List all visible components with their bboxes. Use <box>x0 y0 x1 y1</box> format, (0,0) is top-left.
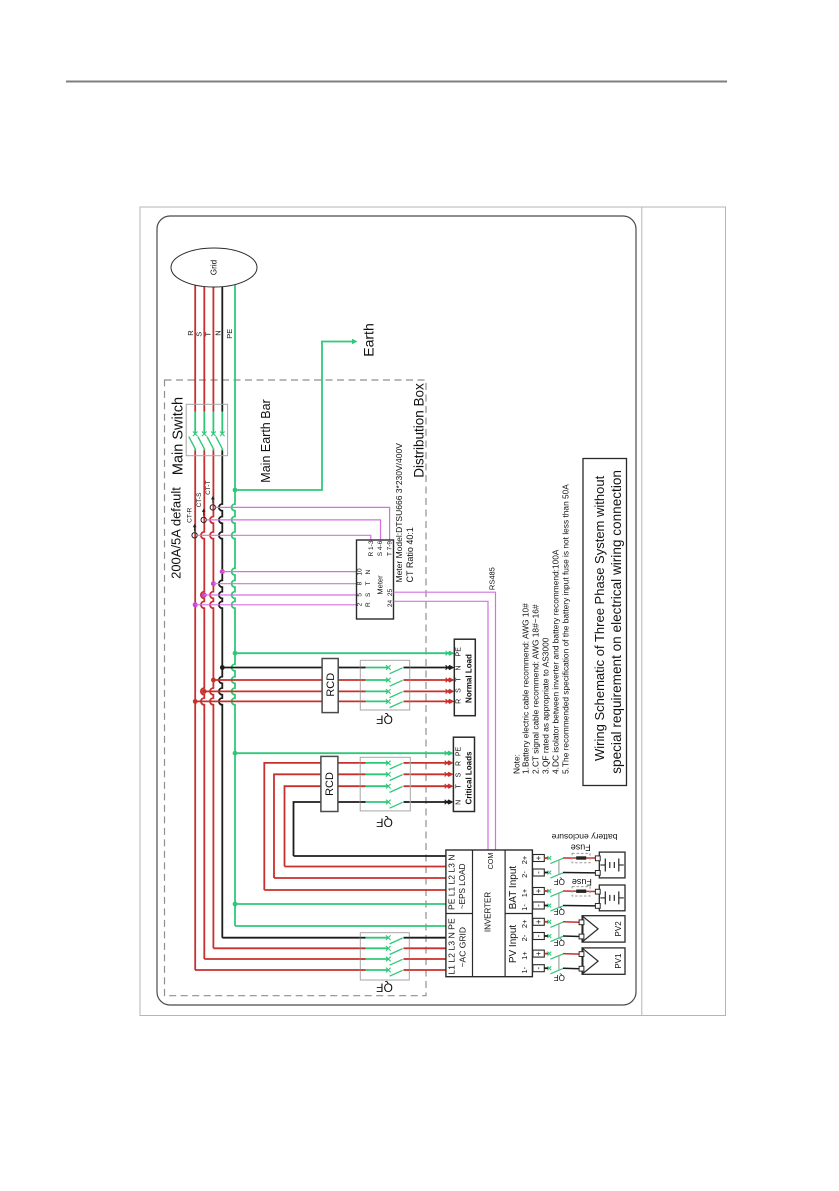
wire PV2 positive <box>563 921 580 924</box>
main switch group box <box>186 404 227 455</box>
normal load terminal box <box>454 639 475 716</box>
QF pole L1 (AC grid) <box>360 968 409 977</box>
svg-text:special requirement on electri: special requirement on electrical wiring… <box>609 470 624 774</box>
svg-text:-: - <box>534 934 543 937</box>
wire CT-R to meter R terminal <box>197 535 371 540</box>
svg-text:QF: QF <box>376 981 393 995</box>
junction normal PE <box>233 651 238 656</box>
svg-text:Normal Load: Normal Load <box>464 654 473 703</box>
svg-text:battery enclosure: battery enclosure <box>551 832 617 842</box>
svg-text:QF: QF <box>376 816 393 830</box>
wire PV1 positive <box>563 953 580 956</box>
title box <box>583 459 627 786</box>
svg-text:CT-S: CT-S <box>196 492 203 507</box>
distribution box dashed boundary <box>165 380 427 996</box>
junction tap pin 8 <box>211 581 216 586</box>
inverter terminal 1+ <box>533 888 544 895</box>
QF pole S (normal) <box>360 689 409 698</box>
inverter terminal 1+ <box>533 950 544 957</box>
svg-text:5: 5 <box>357 593 364 597</box>
svg-text:BAT Input: BAT Input <box>508 866 519 910</box>
svg-text:3.QF rated as appropriate to A: 3.QF rated as appropriate to AS3000 <box>540 637 550 774</box>
svg-text:+: + <box>534 951 543 956</box>
junction tap pin 2 <box>193 602 198 607</box>
svg-text:CT Ratio 40:1: CT Ratio 40:1 <box>405 527 415 582</box>
junction normal T <box>211 678 216 683</box>
svg-text:QF: QF <box>554 907 565 916</box>
wire normal load row PE <box>235 652 446 654</box>
breaker tie bar <box>558 860 560 875</box>
wire battery1 positive <box>563 857 596 859</box>
svg-text:T: T <box>456 784 463 789</box>
svg-text:Wiring Schematic of Three Phas: Wiring Schematic of Three Phase System w… <box>592 475 607 761</box>
svg-text:2-: 2- <box>520 871 529 878</box>
RCD residual current device (normal) <box>322 659 338 713</box>
main switch pole S <box>198 412 207 451</box>
inverter divider EPS/AC <box>446 913 473 915</box>
wire critical loads T riser <box>285 786 446 866</box>
svg-text:Meter: Meter <box>376 575 385 595</box>
QF pole S (critical) <box>360 772 409 781</box>
QF pole R (critical) <box>360 761 409 770</box>
svg-text:Distribution Box: Distribution Box <box>412 383 427 478</box>
svg-text:2-: 2- <box>520 934 529 941</box>
wire PV2 negative <box>563 935 580 938</box>
critical loads terminal box <box>453 737 474 811</box>
breaker blade 2- <box>544 871 563 879</box>
wire critical loads R riser <box>264 763 445 890</box>
svg-text:QF: QF <box>554 877 565 886</box>
svg-text:Critical Loads: Critical Loads <box>464 751 473 804</box>
circuit breaker QF (AC grid) box <box>360 933 409 980</box>
PV panel PV1 <box>582 948 625 974</box>
wire EPS LOAD L2 row <box>274 877 446 879</box>
svg-text:T: T <box>204 331 213 336</box>
wire RS485 pin 25 to inverter COM <box>394 592 496 850</box>
svg-text:2+: 2+ <box>520 919 529 928</box>
svg-text:R 1-3: R 1-3 <box>368 540 375 556</box>
PV terminal <box>579 952 584 957</box>
svg-text:+: + <box>534 919 543 924</box>
breaker tie bar <box>558 924 560 938</box>
battery B2 <box>599 885 625 911</box>
PV panel PV2 <box>582 916 625 942</box>
main switch pole N <box>216 412 225 451</box>
CT clamp CT-T <box>210 496 215 510</box>
battery terminal <box>595 904 600 909</box>
svg-text:Main Earth Bar: Main Earth Bar <box>259 399 273 482</box>
svg-text:8: 8 <box>357 581 364 585</box>
svg-text:Fuse: Fuse <box>571 843 591 853</box>
svg-text:~EPS LOAD: ~EPS LOAD <box>458 863 467 909</box>
svg-text:+: + <box>534 855 543 860</box>
breaker blade 1+ <box>544 889 563 897</box>
junction normal R <box>193 699 198 704</box>
CT clamp CT-R <box>192 524 197 538</box>
fuse (battery) <box>572 887 590 896</box>
inverter terminal 2+ <box>533 918 544 925</box>
svg-text:R: R <box>365 602 372 607</box>
main switch pole R <box>189 412 198 451</box>
svg-text:RCD: RCD <box>324 772 336 796</box>
svg-text:T 7-9: T 7-9 <box>386 541 393 556</box>
inverter divider left column <box>472 850 474 977</box>
svg-text:200A/5A default: 200A/5A default <box>168 487 183 579</box>
svg-text:~AC GRID: ~AC GRID <box>458 927 468 967</box>
svg-text:S: S <box>456 772 463 777</box>
svg-text:S: S <box>456 688 463 693</box>
PV terminal <box>579 934 584 939</box>
grid source ellipse <box>171 248 257 287</box>
circuit breaker QF (normal load) box <box>360 660 409 710</box>
svg-text:24: 24 <box>387 600 394 608</box>
svg-text:1+: 1+ <box>520 888 529 897</box>
wire tap to meter pin 5 <box>204 594 356 596</box>
wire CT-T to meter T terminal <box>215 507 389 540</box>
junction PE to earth bar <box>233 488 238 493</box>
svg-text:2: 2 <box>357 602 364 606</box>
svg-text:1+: 1+ <box>520 951 529 960</box>
inverter divider BAT/PV <box>505 913 532 915</box>
junction critical PE <box>233 751 238 756</box>
RCD residual current device (critical) <box>321 756 338 811</box>
svg-text:1-: 1- <box>520 904 529 911</box>
svg-text:S: S <box>365 592 372 597</box>
svg-text:PV1: PV1 <box>614 953 623 969</box>
wire phase S to AC GRID L2 <box>201 451 204 960</box>
svg-text:PE: PE <box>456 747 463 757</box>
inverter box <box>446 850 533 977</box>
QF pole R (normal) <box>360 699 409 708</box>
svg-text:INVERTER: INVERTER <box>483 892 492 933</box>
inverter terminal 2+ <box>533 855 544 862</box>
inverter terminal 2- <box>533 933 544 940</box>
breaker blade 2+ <box>544 856 563 864</box>
battery terminal <box>595 856 600 861</box>
document top rule <box>66 81 727 83</box>
battery terminal <box>595 889 600 894</box>
wire PV1 negative <box>563 967 580 970</box>
svg-text:2.CT signal cable recommend: A: 2.CT signal cable recommend: AWG 18#~16# <box>531 604 541 774</box>
svg-text:QF: QF <box>554 973 565 982</box>
QF pole N (critical) <box>360 800 409 809</box>
wire PE from grid <box>232 270 235 926</box>
svg-text:Fuse: Fuse <box>572 877 592 887</box>
fuse (battery) <box>572 853 590 862</box>
wire phase R from grid <box>194 270 196 412</box>
svg-text:N: N <box>456 665 463 670</box>
svg-text:N: N <box>214 330 223 335</box>
wire critical loads N riser <box>294 802 446 856</box>
inverter terminal 1- <box>533 965 544 972</box>
QF pole T (critical) <box>360 784 409 793</box>
svg-text:PE: PE <box>225 329 234 339</box>
wire critical loads S riser <box>274 774 446 878</box>
earth arrow <box>352 339 358 345</box>
junction normal S <box>202 689 207 694</box>
wire AC GRID L1 row <box>195 969 360 971</box>
breaker blade 1- <box>544 966 563 974</box>
svg-text:S 4-6: S 4-6 <box>377 540 384 556</box>
wire battery2 negative <box>563 905 596 907</box>
svg-text:RCD: RCD <box>325 673 337 697</box>
wire normal load row S <box>204 690 445 692</box>
battery terminal <box>595 871 600 876</box>
wire EPS LOAD N row <box>294 855 446 857</box>
svg-text:N: N <box>365 569 372 574</box>
svg-text:T: T <box>365 581 372 585</box>
wire EPS LOAD PE row <box>235 903 446 905</box>
wire AC GRID PE row <box>235 925 446 927</box>
PV terminal <box>579 966 584 971</box>
svg-text:-: - <box>534 871 543 874</box>
svg-text:+: + <box>534 888 543 893</box>
svg-text:Meter Model:DTSU666 3*230V/400: Meter Model:DTSU666 3*230V/400V <box>394 443 404 583</box>
svg-text:T: T <box>456 677 463 682</box>
wire normal load row N <box>222 667 445 669</box>
junction tap pin 10 <box>220 569 225 574</box>
sheet divider line <box>641 207 643 1016</box>
breaker blade 1- <box>544 904 563 912</box>
junction EPS PE <box>233 902 238 907</box>
wire EPS LOAD L3 row <box>285 866 446 868</box>
inverter terminal 2- <box>533 869 544 876</box>
inverter divider right column <box>504 850 506 977</box>
svg-text:R: R <box>456 761 463 766</box>
svg-text:Grid: Grid <box>210 259 219 275</box>
wire battery2 positive <box>563 890 596 893</box>
wire EPS LOAD L1 row <box>264 889 446 891</box>
CT clamp CT-S <box>201 508 206 522</box>
breaker blade 2- <box>544 934 563 942</box>
svg-text:QF: QF <box>554 938 565 947</box>
svg-text:-: - <box>534 967 543 970</box>
svg-text:2+: 2+ <box>520 855 529 864</box>
wire neutral N from grid <box>221 270 223 412</box>
svg-text:PV2: PV2 <box>614 921 623 937</box>
wire AC GRID L3 row <box>213 947 360 949</box>
schematic sheet rounded frame <box>157 216 636 1005</box>
svg-text:PE L1 L2 L3 N: PE L1 L2 L3 N <box>447 855 457 910</box>
svg-text:CT-T: CT-T <box>205 480 212 494</box>
QF pole N (normal) <box>360 665 409 674</box>
wire phase T from grid <box>212 270 214 412</box>
wire normal load row T <box>213 679 445 681</box>
main switch pole T <box>207 412 216 451</box>
wire tap to meter pin 2 <box>195 604 356 606</box>
svg-text:5.The recommended specificatio: 5.The recommended specification of the b… <box>560 484 570 774</box>
wire tap to meter pin 10 <box>222 571 356 573</box>
svg-text:N: N <box>456 800 463 805</box>
svg-text:1.Battery electric cable recom: 1.Battery electric cable recommend: AWG … <box>521 603 531 774</box>
svg-text:-: - <box>534 904 543 907</box>
svg-text:Main Switch: Main Switch <box>171 397 187 475</box>
wire to earth <box>235 342 353 491</box>
circuit breaker QF (critical loads) box <box>360 757 410 811</box>
QF pole L2 (AC grid) <box>360 957 409 966</box>
wire RS485 pin 24 to inverter COM <box>394 601 489 850</box>
svg-text:RS485: RS485 <box>487 567 496 590</box>
svg-text:R: R <box>456 699 463 704</box>
wire tap to meter pin 8 <box>213 583 356 585</box>
svg-text:PV Input: PV Input <box>508 925 519 964</box>
breaker blade 1+ <box>544 952 563 960</box>
svg-text:4.DC isolator between inverter: 4.DC isolator between inverter and batte… <box>550 549 560 774</box>
wire neutral N to AC GRID N <box>219 451 222 938</box>
svg-text:S: S <box>195 332 204 337</box>
svg-text:COM: COM <box>486 853 495 870</box>
wire phase T to AC GRID L3 <box>210 451 213 949</box>
svg-text:10: 10 <box>357 568 364 576</box>
svg-text:Earth: Earth <box>361 323 377 356</box>
meter DTSU666 box <box>357 540 394 619</box>
breaker tie bar <box>558 956 560 971</box>
svg-text:QF: QF <box>376 713 393 727</box>
battery B1 <box>599 852 625 878</box>
QF pole T (normal) <box>360 678 409 687</box>
svg-text:L1 L2 L3 N PE: L1 L2 L3 N PE <box>447 918 457 975</box>
image outer border <box>140 207 726 1016</box>
wire AC GRID L2 row <box>204 958 360 960</box>
wire battery1 negative <box>563 872 596 874</box>
svg-text:PE: PE <box>456 647 463 657</box>
QF pole L3 (AC grid) <box>360 946 409 955</box>
junction normal N <box>220 665 225 670</box>
wire critical PE row <box>235 752 446 754</box>
svg-text:25: 25 <box>387 589 394 597</box>
inverter terminal 1- <box>533 902 544 909</box>
wire AC GRID N row <box>222 937 360 939</box>
junction tap pin 5 <box>202 593 207 598</box>
wire normal load row R <box>195 700 445 702</box>
svg-text:CT-R: CT-R <box>187 507 194 522</box>
wire phase R to AC GRID L1 <box>194 451 196 971</box>
breaker tie bar <box>558 893 560 908</box>
wire CT-S to meter S terminal <box>206 520 380 540</box>
wire phase S from grid <box>203 270 205 412</box>
PV terminal <box>579 920 584 925</box>
svg-text:1-: 1- <box>520 966 529 973</box>
breaker blade 2+ <box>544 920 563 928</box>
QF pole N (AC grid) <box>360 935 409 944</box>
